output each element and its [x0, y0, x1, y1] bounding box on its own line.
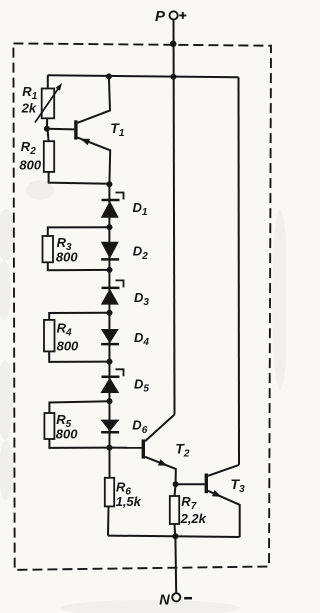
label plus sign	[179, 12, 186, 19]
junction dot node D4/D5	[107, 359, 113, 365]
wire R5 top	[49, 401, 109, 413]
svg-text:800: 800	[57, 338, 79, 353]
svg-text:N: N	[159, 593, 170, 609]
junction dot node below D6	[106, 445, 112, 451]
diode D4	[101, 329, 119, 344]
junction dot T1 collector / top bus	[106, 73, 112, 79]
zener diode D1	[101, 193, 124, 218]
wire N lead	[174, 536, 177, 593]
transistor T2 collector	[145, 415, 175, 442]
wire R4 bottom	[49, 351, 109, 362]
junction dot P rail / top bus	[170, 74, 176, 80]
zener diode D5	[100, 369, 123, 393]
junction dot node D3/D4	[107, 310, 113, 316]
resistor R1	[42, 89, 55, 119]
wire P rail (P terminal down to T2 collector elbow)	[174, 20, 175, 415]
dashed enclosure border	[13, 43, 271, 570]
svg-text:1,5k: 1,5k	[116, 494, 142, 509]
paper smudges	[0, 180, 288, 613]
transistor T3 collector	[208, 465, 239, 476]
wire emitter node to R7	[175, 484, 176, 496]
zener diode D3	[101, 280, 124, 304]
transistor T3 base bar	[205, 474, 208, 494]
wire R4 top	[49, 313, 109, 320]
wire R5 bottom	[49, 439, 109, 448]
transistor T3 emitter arrow (NPN)	[212, 490, 222, 497]
wire right rail (top bus to T3 collector)	[238, 77, 241, 465]
wire R6 top lead	[109, 448, 111, 478]
transistor T2 base bar	[142, 439, 145, 458]
resistor R2	[44, 141, 54, 172]
wire T1 base	[47, 128, 74, 131]
resistor R6	[105, 478, 114, 507]
wire T3 base	[176, 483, 205, 485]
wire R2 bottom lead	[49, 172, 110, 184]
svg-text:800: 800	[56, 427, 78, 442]
wire R6 bottom lead	[107, 506, 110, 535]
svg-text:2k: 2k	[21, 101, 37, 116]
transistor T1 emitter arrow (PNP)	[81, 139, 91, 145]
junction dot R1/R2/T1 base	[44, 126, 50, 132]
top bus wire	[48, 75, 239, 77]
terminal P	[170, 11, 178, 19]
junction dot T2 emitter node	[173, 481, 179, 487]
svg-text:2,2k: 2,2k	[180, 511, 207, 526]
svg-text:800: 800	[56, 249, 78, 264]
resistor R3	[43, 236, 54, 262]
terminal N	[172, 593, 180, 601]
diode D6	[101, 420, 120, 433]
junction dot bottom node	[172, 533, 178, 539]
resistor R4	[44, 320, 55, 352]
transistor T3 emitter	[208, 491, 240, 537]
wire R3 bottom	[48, 262, 110, 270]
resistor R7	[170, 496, 179, 524]
junction dot node D1/D2	[107, 224, 113, 230]
transistor T1 base bar	[74, 120, 77, 139]
junction dot node above D1	[106, 181, 112, 187]
junction dot node D5/D6	[107, 398, 113, 404]
transistor T1 collector	[78, 76, 111, 122]
wire R1 top lead	[47, 75, 49, 88]
bottom bus wire	[108, 536, 240, 537]
svg-text:800: 800	[19, 157, 41, 172]
label minus sign	[184, 597, 192, 600]
transistor T2 emitter arrow (NPN)	[158, 459, 168, 465]
transistor T1 emitter	[78, 138, 111, 184]
junction dot node D2/D3	[107, 267, 113, 273]
diode chain wire D1-D6	[108, 184, 110, 448]
wire T2 base	[109, 447, 141, 449]
wire R7 bottom lead	[174, 524, 177, 536]
junction dot border crossing	[170, 41, 177, 48]
R1 arrowhead	[56, 83, 62, 91]
resistor R5	[44, 413, 54, 439]
diode D2	[101, 242, 119, 260]
R1 adjustment arrow	[35, 86, 60, 123]
wire R1 bottom lead	[46, 118, 48, 129]
svg-text:P: P	[155, 8, 166, 25]
wire R3 top	[48, 227, 110, 236]
wire R2 top lead	[48, 129, 49, 141]
transistor T2 emitter	[145, 457, 176, 484]
